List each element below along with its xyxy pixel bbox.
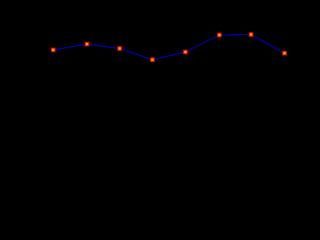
marker point 5 xyxy=(183,50,188,55)
marker point 2 xyxy=(85,42,90,47)
marker point 1 xyxy=(51,48,56,53)
data line (blue polyline) xyxy=(53,35,284,60)
marker point 6 xyxy=(217,33,222,38)
marker point 3 xyxy=(117,46,122,51)
marker point 8 xyxy=(282,51,287,56)
marker point 7 xyxy=(249,32,254,37)
marker point 4 xyxy=(150,57,155,62)
